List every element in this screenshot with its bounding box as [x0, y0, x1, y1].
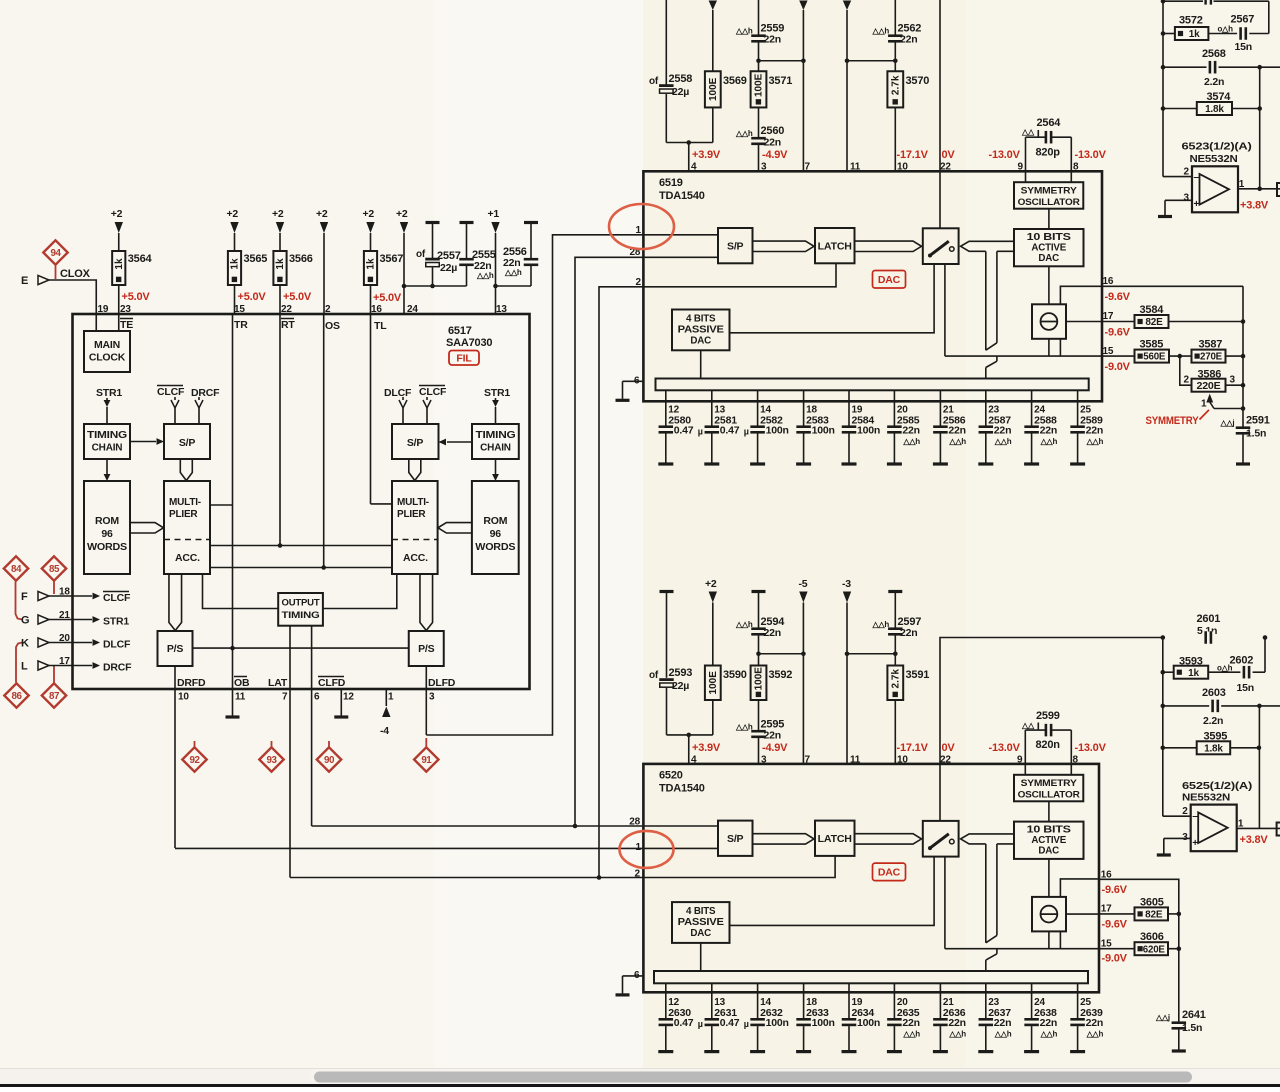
svg-text:-13.0V: -13.0V	[1075, 149, 1107, 161]
svg-text:8: 8	[1073, 162, 1079, 173]
pin 15 wire of 6519	[1102, 355, 1135, 357]
switch box in 6520	[923, 821, 959, 857]
4 BITS PASSIVE DAC box in 6520	[672, 902, 730, 943]
pin 19 capacitor 2584 100n	[848, 390, 850, 425]
svg-text:TE: TE	[120, 319, 133, 331]
svg-text:+5.0V: +5.0V	[373, 292, 402, 304]
tag 86 leader	[16, 643, 22, 683]
svg-text:92: 92	[190, 755, 201, 766]
OUTPUT TIMING box	[278, 593, 323, 626]
wire 6519 pin 1 into S/P	[643, 234, 718, 236]
svg-text:µ: µ	[698, 427, 703, 437]
svg-text:WORDS: WORDS	[475, 542, 516, 553]
svg-text:CLFD: CLFD	[318, 677, 346, 689]
svg-text:91: 91	[421, 755, 432, 766]
svg-text:µ: µ	[744, 427, 749, 437]
svg-text:-17.1V: -17.1V	[897, 742, 929, 754]
svg-text:22n: 22n	[1040, 425, 1058, 437]
svg-text:TDA1540: TDA1540	[659, 190, 705, 202]
non-inverting input ground	[1165, 199, 1192, 201]
svg-text:µ: µ	[744, 1019, 749, 1029]
ROM 96 WORDS right box	[472, 481, 519, 574]
svg-text:MULTI-: MULTI-	[169, 497, 201, 508]
wire 10-bit DAC to current source in 6519	[1048, 266, 1050, 304]
0V line pin 22 of 6519	[939, 0, 941, 171]
svg-text:of: of	[416, 249, 426, 260]
svg-text:820p: 820p	[1036, 147, 1061, 159]
wide arrow S/P right to MULTIPLIER	[409, 459, 421, 481]
wire CLFD from OUTPUT TIMING down	[311, 626, 313, 826]
svg-text:P/S: P/S	[418, 643, 435, 655]
substrate bus bar in 6520	[654, 971, 1088, 983]
capacitor 2593 22u branch	[660, 590, 674, 593]
resistor 3565 1k	[228, 251, 241, 285]
svg-text:100n: 100n	[812, 425, 835, 437]
svg-text:ACC.: ACC.	[403, 552, 428, 564]
svg-text:µ: µ	[698, 1019, 703, 1029]
SYMMETRY OSCILLATOR box in 6520	[1014, 775, 1083, 802]
svg-text:-9.6V: -9.6V	[1102, 919, 1128, 931]
svg-text:16: 16	[371, 304, 382, 315]
wire multiplier row	[210, 545, 392, 547]
tag 85 diamond	[42, 556, 66, 580]
svg-text:22n: 22n	[900, 34, 918, 46]
svg-text:SYMMETRY: SYMMETRY	[1021, 778, 1078, 789]
P/S left box	[158, 631, 193, 666]
svg-text:L: L	[21, 661, 28, 673]
tag 84 leader	[16, 582, 23, 620]
svg-text:17: 17	[1101, 904, 1112, 915]
svg-text:22: 22	[940, 755, 951, 766]
svg-text:3591: 3591	[906, 669, 930, 681]
tag 86 diamond	[4, 683, 28, 707]
wire pin 12 to ground	[340, 689, 342, 716]
svg-text:94: 94	[51, 248, 62, 259]
S/P box in 6519	[718, 228, 753, 263]
svg-text:22: 22	[940, 162, 951, 173]
svg-text:-13.0V: -13.0V	[989, 149, 1021, 161]
svg-text:6: 6	[314, 692, 320, 703]
svg-text:DRFD: DRFD	[177, 677, 206, 689]
bus ribbon hop to substrate bus in 6519	[996, 356, 998, 361]
svg-text:LATCH: LATCH	[818, 834, 852, 845]
svg-text:0.47: 0.47	[674, 425, 694, 437]
svg-text:13: 13	[496, 304, 507, 315]
svg-text:+5.0V: +5.0V	[283, 291, 312, 303]
pin 6 ground in 6520	[623, 975, 644, 977]
wire OB to ground	[232, 648, 234, 715]
wide arrow MULTIPLIER right to P/S	[420, 574, 433, 631]
svg-text:DAC: DAC	[878, 867, 901, 879]
svg-text:10 BITS: 10 BITS	[1027, 232, 1072, 243]
wire supply to resistor 3565	[234, 233, 236, 251]
svg-text:22n: 22n	[900, 627, 918, 639]
svg-text:o△h: o△h	[1217, 664, 1233, 673]
wire OS pin 2 vertical	[323, 314, 325, 568]
wire 6520 pin 1 into S/P	[643, 847, 718, 849]
svg-text:15: 15	[1103, 346, 1114, 357]
svg-text:△△h: △△h	[902, 437, 920, 446]
rail 2603 to op-amp 6525 output	[1258, 706, 1260, 829]
svg-text:DLFD: DLFD	[428, 677, 456, 689]
switch box in 6519	[923, 228, 959, 264]
svg-text:△△h: △△h	[735, 620, 753, 629]
wire 4-bit DAC to switch in 6520	[730, 857, 935, 926]
svg-text:-9.0V: -9.0V	[1102, 953, 1128, 965]
svg-text:△△h: △△h	[476, 271, 494, 280]
window edge bar	[0, 1084, 1280, 1087]
svg-text:22n: 22n	[994, 425, 1012, 437]
wire TL pin 16 vertical	[370, 314, 372, 504]
svg-text:–: –	[1192, 811, 1198, 822]
svg-text:+2: +2	[272, 208, 284, 220]
capacitor 2562 22n	[894, 0, 896, 35]
svg-text:22n: 22n	[948, 425, 966, 437]
pin 18 capacitor 2633 100n	[803, 983, 805, 1018]
wide arrow MULTIPLIER to P/S left	[169, 574, 182, 631]
svg-text:100E: 100E	[708, 671, 719, 695]
svg-text:2560: 2560	[761, 125, 785, 137]
svg-text:of: of	[649, 670, 659, 681]
svg-text:3590: 3590	[723, 669, 747, 681]
svg-text:2641: 2641	[1182, 1009, 1206, 1021]
svg-text:△△j: △△j	[1220, 419, 1235, 428]
pin 14 capacitor 2632 100n	[757, 983, 759, 1018]
DAC red label in 6519	[873, 271, 906, 289]
svg-text:100n: 100n	[812, 1017, 835, 1029]
svg-text:LATCH: LATCH	[818, 242, 852, 253]
svg-text:+5.0V: +5.0V	[238, 291, 267, 303]
wide arrow ROM to MULTIPLIER	[130, 523, 164, 533]
svg-text:2: 2	[1184, 375, 1190, 386]
wire supply to resistor 3564	[118, 233, 120, 251]
pin 19 capacitor 2634 100n	[848, 983, 850, 1018]
connector box at right edge top	[1277, 183, 1280, 196]
svg-text:22n: 22n	[948, 1017, 966, 1029]
wire LAT from OUTPUT TIMING down	[289, 626, 291, 878]
svg-text:DAC: DAC	[690, 928, 711, 939]
pin 13 capacitor 2581 0.47u	[711, 390, 713, 425]
svg-text:100n: 100n	[857, 1017, 880, 1029]
svg-text:3: 3	[429, 692, 435, 703]
resistor 3571 100E	[751, 71, 767, 107]
svg-text:PASSIVE: PASSIVE	[678, 325, 725, 336]
svg-text:-13.0V: -13.0V	[989, 742, 1021, 754]
resistor 3567 1k	[364, 251, 377, 285]
resistor 3570 2.7k	[887, 71, 903, 107]
svg-text:+2: +2	[111, 208, 123, 220]
wire P/S to P/S	[193, 647, 409, 649]
red circle annotation on 6519 pin 1	[609, 204, 674, 249]
svg-text:△△h: △△h	[948, 437, 966, 446]
svg-text:△△h: △△h	[872, 27, 890, 36]
svg-text:4 BITS: 4 BITS	[686, 314, 716, 325]
svg-text:CLOCK: CLOCK	[89, 352, 126, 364]
DAC red label in 6520	[873, 863, 906, 881]
svg-text:7: 7	[805, 162, 811, 173]
svg-text:ROM: ROM	[95, 515, 119, 527]
wire LAT row to 6520 pin 2	[290, 877, 643, 879]
svg-text:△△h: △△h	[948, 1030, 966, 1039]
svg-text:0V: 0V	[942, 149, 956, 161]
svg-text:1.8k: 1.8k	[1205, 104, 1224, 115]
svg-text:+3.8V: +3.8V	[1240, 834, 1269, 846]
svg-text:+1: +1	[488, 208, 500, 220]
svg-text:1k: 1k	[114, 258, 125, 270]
svg-text:△△: △△	[1021, 721, 1035, 730]
svg-text:-4.9V: -4.9V	[762, 742, 788, 754]
wide arrow S/P to LATCH in 6519	[753, 241, 815, 251]
wire/cap 2558 22u branch	[665, 0, 667, 85]
svg-text:CLCF: CLCF	[157, 386, 185, 398]
svg-text:SAA7030: SAA7030	[446, 337, 492, 349]
svg-text:OB: OB	[234, 677, 250, 689]
svg-text:TR: TR	[234, 319, 248, 331]
current source symbol in 6520	[1032, 897, 1066, 932]
svg-text:12: 12	[343, 692, 354, 703]
svg-text:△△: △△	[1021, 128, 1035, 137]
wire 4-bit DAC to switch in 6519	[730, 264, 935, 333]
svg-text:6525(1/2)(A): 6525(1/2)(A)	[1182, 781, 1252, 792]
svg-text:1k: 1k	[1188, 668, 1199, 679]
svg-text:2599: 2599	[1036, 710, 1060, 722]
svg-text:21: 21	[59, 610, 70, 621]
svg-text:+3.9V: +3.9V	[692, 149, 721, 161]
svg-text:WORDS: WORDS	[87, 542, 128, 553]
svg-text:STR1: STR1	[484, 387, 510, 399]
svg-text:△△h: △△h	[994, 437, 1012, 446]
tag 94 diamond	[43, 240, 67, 264]
wire resistor 3567 to pin	[370, 285, 372, 314]
svg-text:2: 2	[1182, 806, 1188, 817]
svg-text:0.47: 0.47	[674, 1017, 694, 1029]
IC 6520 TDA1540 outline	[643, 764, 1099, 992]
svg-text:△△j: △△j	[1155, 1013, 1170, 1022]
svg-text:3: 3	[761, 755, 767, 766]
wire +1 to node	[495, 233, 497, 286]
svg-text:82E: 82E	[1145, 317, 1163, 328]
svg-text:100n: 100n	[766, 1017, 789, 1029]
wide arrow 10-bit DAC to switch in 6519	[961, 241, 1014, 251]
svg-text:3564: 3564	[128, 253, 153, 265]
TIMING CHAIN left box	[84, 424, 130, 459]
svg-text:6: 6	[634, 375, 640, 386]
pin 23 capacitor 2587 22n	[985, 390, 987, 425]
svg-text:1: 1	[1201, 399, 1207, 410]
svg-text:3565: 3565	[244, 253, 268, 265]
svg-text:DLCF: DLCF	[384, 387, 412, 399]
connector box at right edge middle	[1277, 823, 1280, 836]
wire +2 to node	[403, 233, 405, 286]
svg-text:△△h: △△h	[1086, 1030, 1104, 1039]
svg-text:1: 1	[388, 692, 394, 703]
svg-text:S/P: S/P	[727, 833, 744, 845]
svg-text:82E: 82E	[1145, 910, 1163, 921]
svg-text:S/P: S/P	[407, 437, 424, 449]
non-inverting input ground of 6525	[1164, 837, 1191, 839]
svg-text:S/P: S/P	[179, 437, 196, 449]
capacitor 2594 22n	[752, 590, 766, 593]
svg-text:84: 84	[11, 564, 22, 575]
svg-text:-9.6V: -9.6V	[1105, 327, 1131, 339]
svg-text:22n: 22n	[1086, 1017, 1104, 1029]
svg-text:1k: 1k	[1189, 29, 1200, 40]
svg-text:OSCILLATOR: OSCILLATOR	[1018, 790, 1080, 801]
wire oscillator to 10-bit DAC in 6520	[1048, 801, 1050, 821]
MAIN CLOCK box	[84, 331, 130, 372]
capacitor 2559 22n	[758, 0, 760, 35]
svg-text:100E: 100E	[754, 73, 765, 97]
wire 4-bit DAC to bus in 6519	[700, 350, 702, 379]
svg-text:2567: 2567	[1231, 14, 1255, 26]
svg-text:DRCF: DRCF	[103, 662, 132, 674]
svg-text:820n: 820n	[1036, 739, 1061, 751]
svg-text:4: 4	[691, 162, 697, 173]
svg-text:2591: 2591	[1246, 415, 1270, 427]
pin 22 wire to switch in 6520	[939, 764, 941, 821]
pin 24 capacitor 2588 22n	[1031, 390, 1033, 425]
pin 16 wire of 6519	[1102, 285, 1243, 287]
svg-text:3: 3	[1184, 193, 1190, 204]
svg-text:96: 96	[490, 528, 502, 540]
wire MULT right to TR	[210, 504, 233, 506]
IC 6517 SAA7030 outline	[73, 314, 530, 689]
svg-text:ACC.: ACC.	[175, 552, 200, 564]
wire node to pin 4 of 6520	[667, 734, 713, 736]
svg-text:2558: 2558	[669, 73, 693, 85]
svg-text:6523(1/2)(A): 6523(1/2)(A)	[1182, 142, 1252, 153]
svg-text:4: 4	[691, 755, 697, 766]
wire MULT right bottom to OUTPUT TIMING	[323, 574, 397, 609]
svg-text:2.2n: 2.2n	[1204, 76, 1224, 88]
pin 15 wire of 6520	[1099, 948, 1135, 950]
pin 21 capacitor 2636 22n	[939, 983, 941, 1018]
svg-text:6517: 6517	[448, 325, 472, 337]
svg-text:PLIER: PLIER	[397, 509, 426, 520]
wire pin 16 from current source top in 6520	[1060, 879, 1099, 897]
svg-text:15: 15	[1101, 939, 1112, 950]
svg-text:△△h: △△h	[1040, 437, 1058, 446]
svg-text:2.7k: 2.7k	[891, 75, 902, 95]
resistor 3590 100E	[705, 666, 721, 701]
svg-text:22n: 22n	[764, 34, 782, 46]
rail 2568 to op-amp output	[1259, 67, 1261, 189]
wire resistor 3565 to pin	[234, 285, 236, 314]
svg-text:19: 19	[98, 304, 109, 315]
pin 15 internal rail in 6519	[945, 355, 1102, 357]
svg-text:3567: 3567	[380, 253, 404, 265]
capacitor 2597 22n	[888, 590, 902, 593]
svg-text:22µ: 22µ	[440, 262, 457, 274]
wire rail to inverting input of 6525	[1163, 815, 1191, 817]
svg-text:2564: 2564	[1037, 117, 1062, 129]
svg-text:620E: 620E	[1143, 944, 1166, 955]
svg-text:10: 10	[897, 755, 908, 766]
svg-text:SYMMETRY: SYMMETRY	[1021, 186, 1078, 197]
wire current source to pin 17 in 6519	[1066, 321, 1102, 323]
node wire +2/2557/2555 to pin 24	[404, 285, 467, 287]
svg-text:CLCF: CLCF	[419, 386, 447, 398]
svg-text:-4.9V: -4.9V	[762, 149, 788, 161]
tag 87 diamond	[42, 683, 66, 707]
arrow TIMING CHAIN right to S/P	[447, 441, 472, 443]
resistor 3564 1k	[112, 251, 125, 285]
junction wire 2594 row left	[759, 653, 804, 655]
LATCH box in 6520	[815, 821, 855, 856]
svg-text:3592: 3592	[769, 669, 793, 681]
svg-text:CHAIN: CHAIN	[92, 443, 123, 454]
wire 6519 pin 28 into S/P	[643, 256, 718, 258]
svg-text:ROM: ROM	[483, 515, 507, 527]
pin 23 capacitor 2637 22n	[985, 983, 987, 1018]
svg-text:MULTI-: MULTI-	[397, 497, 429, 508]
pin 21 capacitor 2586 22n	[939, 390, 941, 425]
svg-text:3571: 3571	[769, 75, 793, 87]
wire switch to pin 15 rail in 6520	[944, 857, 946, 949]
svg-text:MAIN: MAIN	[94, 339, 120, 351]
capacitor 2556 22n	[524, 221, 538, 224]
svg-text:FIL: FIL	[456, 353, 472, 365]
svg-text:3: 3	[1182, 832, 1188, 843]
svg-text:△△h: △△h	[994, 1030, 1012, 1039]
svg-text:TL: TL	[374, 320, 387, 332]
svg-text:DAC: DAC	[878, 274, 901, 286]
junction wire -3 line to 2562	[847, 60, 895, 62]
top feedback capacitor	[1163, 0, 1203, 2]
svg-text:10: 10	[897, 162, 908, 173]
resistor 3591 2.7k	[887, 666, 903, 701]
svg-text:7: 7	[282, 692, 288, 703]
pin 1 wire to -4 supply	[385, 689, 387, 706]
pin 25 capacitor 2639 22n	[1077, 983, 1079, 1018]
wide arrow S/P to LATCH in 6520	[753, 834, 815, 844]
svg-text:+2: +2	[363, 208, 375, 220]
bus ribbon hop to substrate bus in 6520	[996, 949, 998, 954]
svg-text:-4: -4	[380, 725, 389, 737]
svg-text:NE5532N: NE5532N	[1190, 154, 1238, 165]
wire E to pin 19	[49, 280, 96, 331]
svg-text:3566: 3566	[289, 253, 313, 265]
wire to symmetry pot terminal 2	[1180, 356, 1192, 385]
P/S right box	[409, 631, 444, 666]
rail to capacitor 2591	[1242, 286, 1244, 427]
10 BITS ACTIVE DAC box in 6519	[1014, 229, 1084, 266]
svg-text:PLIER: PLIER	[169, 509, 198, 520]
junction wire 2559/3571 to -5 line	[759, 60, 804, 62]
svg-text:-9.0V: -9.0V	[1105, 361, 1131, 373]
svg-text:1k: 1k	[366, 258, 377, 270]
supply arrow for 3569	[709, 1, 717, 11]
svg-text:10: 10	[178, 692, 189, 703]
svg-text:0.47: 0.47	[720, 1017, 740, 1029]
wire current source to pin 15 rail in 6520	[1048, 931, 1050, 948]
svg-text:TIMING: TIMING	[87, 430, 127, 441]
pin 18 capacitor 2583 100n	[803, 390, 805, 425]
svg-text:P/S: P/S	[167, 643, 184, 655]
MULTIPLIER/ACC right box	[392, 481, 438, 574]
svg-text:24: 24	[407, 304, 418, 315]
svg-text:+: +	[1192, 838, 1198, 849]
svg-text:2.2n: 2.2n	[1203, 715, 1223, 727]
svg-text:-17.1V: -17.1V	[897, 149, 929, 161]
wire 4-bit DAC to bus in 6520	[700, 943, 702, 972]
feedback rail of 6525	[1162, 638, 1164, 817]
svg-text:1: 1	[636, 842, 642, 853]
wire node to pin 4	[666, 142, 713, 144]
svg-text:15: 15	[234, 304, 245, 315]
svg-text:+2: +2	[705, 578, 717, 590]
svg-text:22µ: 22µ	[672, 680, 689, 692]
